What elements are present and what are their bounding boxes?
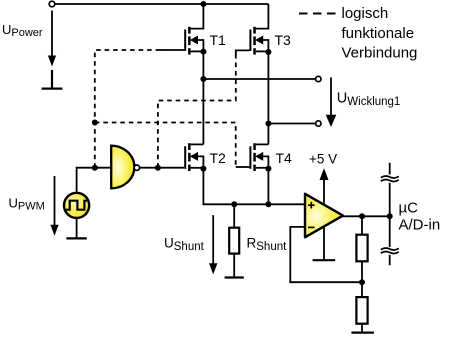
svg-text:funktionale: funktionale <box>342 25 415 42</box>
junction: output / A-D line <box>387 213 393 219</box>
terminal: U_Power input <box>49 1 55 7</box>
wire (logical): inverter output to T3 gate <box>158 54 236 168</box>
junction: T3 source / bridge node B <box>265 49 271 55</box>
junction: T4 source <box>265 166 271 172</box>
wire: bridge rail B (T3 source to T4 drain) <box>267 52 269 144</box>
junction: T2 source <box>200 166 206 172</box>
ground (divider) <box>351 332 374 334</box>
ground (op-amp) <box>313 259 336 261</box>
svg-text:UShunt: UShunt <box>164 236 205 254</box>
svg-text:A/D-in: A/D-in <box>399 217 441 234</box>
svg-text:µC: µC <box>399 200 419 217</box>
inverter gate U1 <box>111 146 139 189</box>
break mark (bottom) <box>381 248 399 253</box>
transistor Q T2 <box>158 143 204 171</box>
wire: PWM source to ground <box>76 218 78 238</box>
transistor Q T1 <box>160 4 203 55</box>
junction: top rail / T1 drain <box>200 1 206 7</box>
wire: node A to winding terminal 1 <box>203 78 315 80</box>
wire: inverter output <box>140 167 158 169</box>
junction: divider tap <box>359 279 365 285</box>
wire: op-amp negative supply to ground <box>323 227 325 261</box>
wire: PWM source to inverter input <box>77 168 112 194</box>
wire: feedback (inverting input to divider tap) <box>290 227 362 282</box>
junction: logical branch on PWM line <box>92 120 98 126</box>
svg-text:logisch: logisch <box>342 5 389 22</box>
voltage arrow U_Wicklung1 <box>326 78 337 128</box>
svg-text:UPower: UPower <box>2 22 43 39</box>
svg-text:UPWM: UPWM <box>9 196 45 213</box>
svg-text:T2: T2 <box>210 150 227 166</box>
wire: T4 source to bottom rail <box>267 169 269 205</box>
voltage arrow U_PWM <box>50 176 58 236</box>
wire (logical): PWM node to T1 gate <box>95 50 161 168</box>
svg-text:UWicklung1: UWicklung1 <box>337 91 401 109</box>
break mark (top) <box>381 176 399 181</box>
op-amp U2 <box>305 194 343 238</box>
junction: inverter output node <box>155 165 161 171</box>
svg-text:T4: T4 <box>276 150 293 166</box>
svg-text:Verbindung: Verbindung <box>342 44 418 61</box>
wire: op-amp output <box>343 215 390 217</box>
supply +5 V arrow <box>320 168 329 204</box>
voltage arrow U_Power <box>48 11 56 67</box>
svg-text:T3: T3 <box>275 32 292 48</box>
junction: PWM node <box>92 165 98 171</box>
resistor R1 (feedback divider) <box>356 216 367 282</box>
legend: dashed line sample <box>299 13 336 15</box>
svg-text:T1: T1 <box>210 32 227 48</box>
wire: node B to winding terminal 2 <box>268 123 315 125</box>
junction: T4 source rail / bottom rail <box>265 201 271 207</box>
junction: node B to winding <box>265 121 271 127</box>
svg-text:+5 V: +5 V <box>309 152 337 167</box>
ground (R_Shunt) <box>225 276 244 278</box>
wire (logical): PWM node to T4 gate <box>95 123 236 167</box>
junction: T1 source / bridge node A <box>200 49 206 55</box>
transistor Q T3 <box>236 4 269 55</box>
wire: top supply rail <box>55 3 269 5</box>
terminal: winding 1 top <box>316 76 321 81</box>
source U_PWM (square-wave generator) <box>64 193 89 218</box>
junction: output / divider <box>359 213 365 219</box>
voltage arrow U_Shunt <box>209 215 217 274</box>
ground (U_Power) <box>42 70 63 89</box>
svg-text:RShunt: RShunt <box>247 236 288 254</box>
transistor Q T4 <box>236 143 269 171</box>
resistor R_Shunt <box>229 204 239 277</box>
wire: T2 source to bottom rail <box>203 169 305 205</box>
ground (PWM source) <box>66 237 86 239</box>
resistor R2 (divider to ground) <box>356 282 367 332</box>
wire: bridge rail A (T1 source to T2 drain) <box>202 52 204 145</box>
wire: A/D line (with break marks) <box>389 163 391 266</box>
junction: node A to winding <box>200 76 206 82</box>
junction: shunt top <box>231 201 237 207</box>
terminal: winding 1 bottom <box>316 121 321 126</box>
